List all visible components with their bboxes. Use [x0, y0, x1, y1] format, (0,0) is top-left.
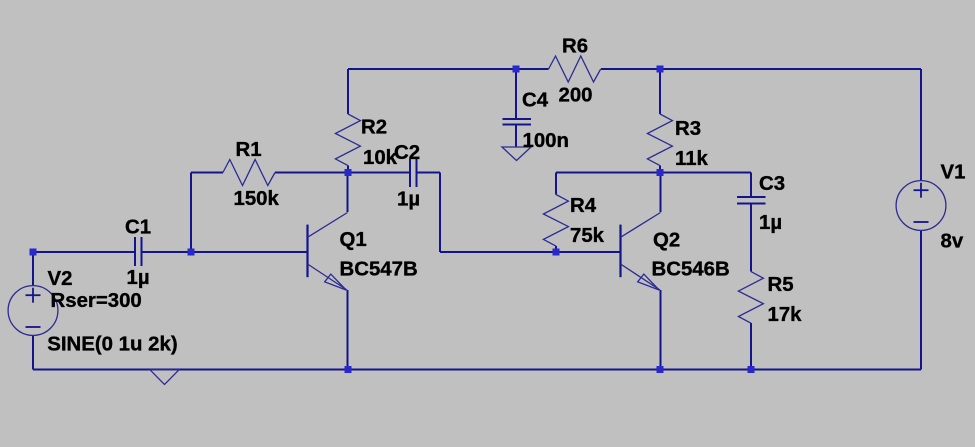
svg-text:11k: 11k [675, 148, 709, 170]
svg-text:17k: 17k [768, 304, 803, 326]
svg-text:C4: C4 [522, 90, 549, 112]
svg-text:R4: R4 [570, 195, 597, 217]
svg-text:100n: 100n [523, 130, 569, 152]
svg-text:Q2: Q2 [653, 230, 680, 252]
svg-text:R5: R5 [768, 274, 794, 296]
svg-text:200: 200 [559, 85, 593, 107]
svg-text:1µ: 1µ [397, 189, 420, 211]
svg-text:Rser=300: Rser=300 [51, 290, 142, 312]
svg-text:C1: C1 [125, 217, 151, 239]
svg-text:BC546B: BC546B [652, 259, 730, 281]
svg-text:C2: C2 [394, 142, 420, 164]
svg-text:1µ: 1µ [127, 267, 150, 289]
svg-text:10k: 10k [363, 147, 398, 169]
svg-text:R1: R1 [236, 139, 262, 161]
svg-text:V2: V2 [48, 268, 73, 290]
svg-text:R6: R6 [562, 36, 588, 58]
svg-text:R2: R2 [361, 117, 387, 139]
svg-text:1µ: 1µ [759, 212, 782, 234]
svg-text:75k: 75k [570, 225, 605, 247]
svg-text:R3: R3 [675, 118, 701, 140]
svg-text:C3: C3 [759, 173, 785, 195]
svg-text:Q1: Q1 [340, 229, 367, 251]
svg-text:V1: V1 [941, 162, 966, 184]
svg-text:SINE(0 1u 2k): SINE(0 1u 2k) [47, 334, 177, 356]
svg-text:BC547B: BC547B [340, 259, 418, 281]
svg-text:150k: 150k [234, 188, 280, 210]
svg-text:8v: 8v [941, 231, 964, 253]
